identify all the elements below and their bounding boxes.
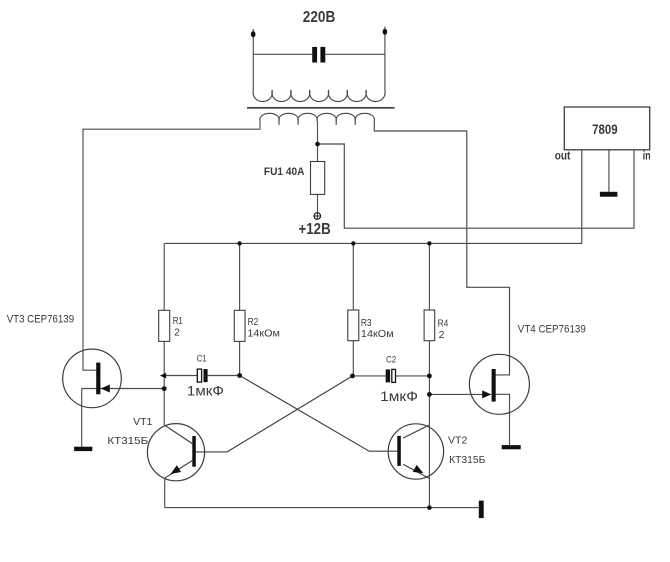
- label C1: [197, 354, 207, 365]
- wire R3 bottom to C2: [352, 341, 354, 376]
- svg-text:КТ315Б: КТ315Б: [107, 435, 148, 447]
- wire 7809 ground pin: [608, 150, 610, 192]
- transistor VT3 body: [63, 349, 122, 408]
- transistor VT2 base bar: [397, 436, 401, 466]
- wire fuse to +12V terminal: [317, 194, 319, 212]
- wire bottom emitter rail: [165, 507, 479, 509]
- wire R4 bottom through VT2 to bottom rail: [428, 341, 430, 508]
- node 220V output terminal left: [252, 29, 254, 90]
- wire R3 top: [352, 243, 354, 310]
- label VT4 CEP76139: [518, 324, 586, 336]
- wire R2 top: [239, 243, 241, 310]
- svg-text:+12В: +12В: [299, 221, 331, 238]
- transistor VT3 arrow: [101, 385, 110, 393]
- wire VT3 gate-source line: [82, 388, 166, 390]
- svg-text:VT3 CEP76139: VT3 CEP76139: [7, 314, 74, 326]
- wire VT2 emitter: [403, 464, 429, 478]
- capacitor C2 right plate: [392, 369, 396, 382]
- capacitor C1 right plate: [204, 369, 208, 382]
- node rail junction R2: [237, 241, 241, 245]
- svg-text:2: 2: [439, 329, 445, 341]
- wire center tap down to fuse: [317, 121, 319, 161]
- transistor VT4 gate bar: [492, 369, 496, 402]
- transistor VT4 arrow: [482, 390, 491, 398]
- transistor VT1 emitter arrow: [171, 465, 182, 474]
- label R3 value: [361, 317, 394, 340]
- transistor VT2 emitter arrow: [413, 465, 424, 473]
- label +12V: [299, 221, 331, 238]
- label VT2 type KT315B: [449, 454, 485, 466]
- capacitor top plate left: [312, 47, 317, 63]
- capacitor top plate right: [320, 47, 325, 63]
- transistor VT2 body: [388, 424, 443, 479]
- wire C1 left lead: [164, 375, 197, 377]
- label 220V: [303, 9, 336, 26]
- transistor VT3 gate bar: [96, 363, 100, 395]
- transformer T1 core: [247, 107, 395, 109]
- capacitor C1 left plate: [197, 369, 201, 382]
- node terminal dot right: [383, 29, 388, 35]
- ground VT3 source: [74, 447, 92, 451]
- wire R1 bottom to VT1 collector node: [163, 341, 165, 425]
- label VT3 CEP76139: [7, 314, 74, 326]
- wire C2 right lead: [396, 375, 430, 377]
- svg-text:2: 2: [174, 327, 180, 339]
- node bottom rail junction: [427, 505, 432, 510]
- node VT3 gate junction: [162, 386, 167, 391]
- svg-text:1мкФ: 1мкФ: [187, 382, 224, 398]
- node C2 left junction: [350, 374, 355, 379]
- wire VT3 drain: [83, 129, 96, 371]
- ground bottom rail terminal: [479, 501, 484, 518]
- resistor R3: [348, 310, 359, 341]
- resistor R1: [159, 310, 170, 341]
- node terminal dot left: [251, 31, 256, 37]
- svg-text:1мкФ: 1мкФ: [380, 388, 418, 404]
- label VT2: [448, 435, 468, 447]
- wire primary right end to VT4 drain: [374, 121, 509, 375]
- transistor VT1 body: [147, 424, 204, 481]
- node center tap junction: [315, 142, 320, 147]
- label out: [555, 148, 571, 162]
- label in: [643, 149, 651, 163]
- svg-text:VT4 CEP76139: VT4 CEP76139: [518, 324, 586, 336]
- transistor VT1 base bar: [192, 436, 196, 467]
- label C1 value 1mkF: [187, 382, 224, 398]
- wire primary left end to VT3 drain rail: [83, 121, 260, 129]
- resistor R4: [424, 310, 435, 341]
- wire VT3 source to ground: [81, 389, 83, 447]
- svg-text:VT2: VT2: [448, 435, 468, 447]
- label VT1: [133, 416, 152, 428]
- node C1 left junction: [160, 373, 166, 379]
- wire cross-coupling C1 node to VT2 base: [240, 376, 398, 452]
- svg-text:R1: R1: [173, 315, 183, 327]
- label R1 value: [173, 315, 183, 338]
- node 220V output terminal right: [384, 27, 386, 91]
- svg-text:C1: C1: [197, 354, 207, 365]
- node C1 right junction: [237, 373, 242, 378]
- transformer T1 secondary winding: [253, 90, 385, 102]
- svg-text:7809: 7809: [592, 122, 618, 137]
- resistor R2: [234, 310, 245, 341]
- label R2 value: [247, 316, 280, 339]
- node rail junction R4: [427, 241, 431, 245]
- ground 7809: [600, 192, 618, 197]
- wire tap junction to 7809 in pin: [318, 144, 635, 228]
- capacitor C2 left plate: [386, 369, 390, 382]
- wire R1 top: [163, 243, 165, 310]
- wire C1 right lead: [208, 375, 240, 377]
- wire C2 left lead: [353, 375, 386, 377]
- wire VT4 source to ground: [495, 394, 509, 445]
- wire top capacitor row: [253, 53, 385, 55]
- svg-text:VT1: VT1: [133, 416, 152, 428]
- svg-text:220В: 220В: [303, 9, 336, 26]
- svg-text:14кОм: 14кОм: [247, 327, 280, 339]
- svg-text:out: out: [555, 148, 571, 162]
- node C2 right junction: [427, 374, 432, 379]
- wire VT4 gate: [429, 393, 491, 395]
- wire VT1 emitter: [165, 461, 192, 478]
- svg-text:FU1 40A: FU1 40A: [264, 166, 305, 178]
- wire VT1 emitter to bottom rail: [164, 478, 166, 508]
- fuse FU1: [311, 162, 325, 195]
- svg-text:in: in: [643, 149, 651, 163]
- label C2: [386, 355, 396, 366]
- wire R4 top: [428, 243, 430, 310]
- wire R2 bottom to C1: [239, 341, 241, 375]
- wire +12V rail to 7809 out pin: [164, 150, 582, 244]
- label 7809: [592, 122, 618, 137]
- node rail junction R3: [351, 241, 355, 245]
- label VT1 type KT315B: [107, 435, 148, 447]
- label R4 value: [438, 317, 449, 341]
- wire VT2 collector: [403, 425, 429, 438]
- label FU1 40A: [264, 166, 305, 178]
- regulator U1 7809: [564, 107, 649, 150]
- svg-text:14кОм: 14кОм: [361, 328, 394, 340]
- svg-text:C2: C2: [386, 355, 396, 366]
- svg-text:КТ315Б: КТ315Б: [449, 454, 485, 466]
- transistor VT4 body: [469, 354, 529, 414]
- wire cross-coupling C2 node to VT1 base: [196, 376, 353, 452]
- ground VT4 source: [502, 445, 521, 449]
- node VT4 gate junction: [427, 392, 432, 397]
- wire VT1 collector: [164, 425, 192, 444]
- node +12V input terminal: [314, 213, 321, 220]
- svg-text:R4: R4: [438, 317, 449, 329]
- transformer T1 primary winding: [260, 113, 375, 125]
- label C2 value 1mkF: [380, 388, 418, 404]
